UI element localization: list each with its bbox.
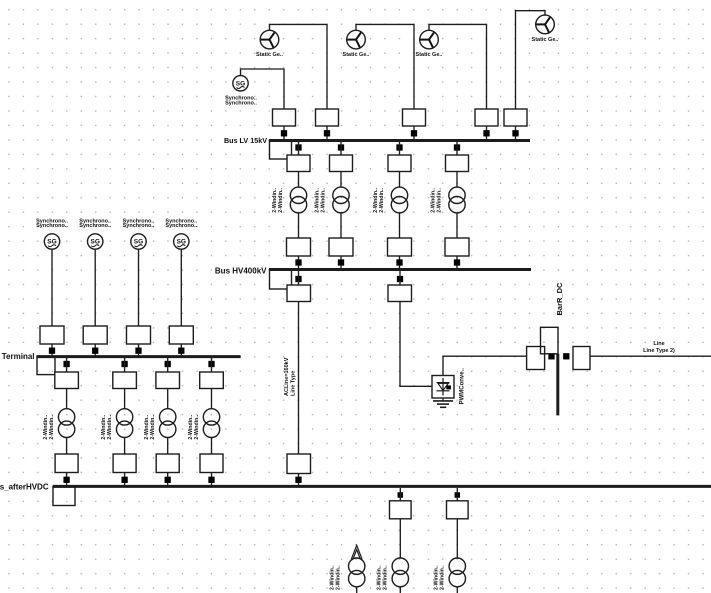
- wire switch SG3 to Terminal: [138, 344, 140, 356]
- label transformer T8 (rotated): [330, 565, 342, 590]
- transformer T9 (2-winding, bottom): [392, 558, 408, 587]
- breaker square above Bus HV branch T3: [396, 259, 402, 265]
- cubicle rectangle at Bus afterHVDC left end: [53, 487, 75, 506]
- svg-text:Static Ge..: Static Ge..: [256, 52, 283, 58]
- wire switch to transformer T4: [456, 172, 458, 188]
- svg-text:PWMConve..: PWMConve..: [459, 368, 465, 405]
- wire switch T10 to transformer: [456, 519, 458, 558]
- svg-text:2-Windin..: 2-Windin..: [278, 188, 284, 213]
- transformer T10 (2-winding, bottom): [449, 558, 465, 587]
- svg-text:Synchrono..: Synchrono..: [165, 223, 197, 229]
- breaker square SG3 above Terminal: [135, 348, 141, 354]
- wire below transformer T9: [399, 587, 401, 593]
- svg-text:s_afterHVDC: s_afterHVDC: [0, 482, 49, 491]
- wire switch A to Bus LV: [283, 126, 285, 140]
- AC line (long vertical line): [298, 302, 300, 455]
- wire Terminal to switch T5: [66, 358, 68, 372]
- svg-text:Synchrono..: Synchrono..: [225, 100, 257, 106]
- wire lower switch T3 to Bus HV: [399, 256, 401, 269]
- breaker square above Bus afterHVDC branch T7: [165, 477, 171, 483]
- wire switch C to Bus LV: [413, 126, 415, 140]
- switch box SG4: [169, 326, 193, 344]
- wire switch to transformer T5: [66, 389, 68, 409]
- label transformer T4 (rotated): [431, 188, 443, 213]
- svg-text:2-Windin..: 2-Windin..: [321, 188, 327, 213]
- wire Bus afterHVDC to switch T9: [399, 488, 401, 501]
- breaker square right of BarR_DC: [563, 353, 569, 359]
- svg-text:2-Windin..: 2-Windin..: [437, 188, 443, 213]
- breaker square below Terminal branch T7: [165, 361, 171, 367]
- wire switch D to Bus LV: [486, 126, 488, 140]
- bus Bus_afterHVDC: [53, 485, 711, 488]
- label transformer T7 (rotated): [144, 414, 156, 439]
- svg-text:Terminal: Terminal: [2, 352, 35, 361]
- synchronous machine SG3: [131, 234, 146, 249]
- wire lower switch T5 to Bus afterHVDC: [66, 473, 68, 486]
- line to the right (Line Type 2): [590, 355, 711, 357]
- bus Terminal: [37, 355, 241, 358]
- cubicle rectangle at Bus HV left end: [270, 270, 292, 290]
- PWM converter U1: [432, 376, 454, 399]
- transformer T1 (2-winding): [290, 187, 306, 213]
- wire transformer T3 to lower switch: [399, 213, 401, 238]
- synchronous machine SG0: [233, 76, 248, 91]
- wire switch to transformer T7: [167, 389, 169, 409]
- svg-text:Synchrono..: Synchrono..: [79, 223, 111, 229]
- wire Bus HV to PWM switch: [399, 271, 401, 285]
- wire lower switch T2 to Bus HV: [340, 256, 342, 269]
- wire Bus LV to switch T3: [399, 142, 401, 155]
- switch box AC line bottom: [287, 454, 311, 474]
- svg-text:2-Windin..: 2-Windin..: [439, 565, 445, 590]
- svg-text:Synchrono..: Synchrono..: [36, 223, 68, 229]
- breaker square above Bus HV branch T4: [454, 259, 460, 265]
- breaker square below Bus LV branch T3: [396, 144, 402, 150]
- switch box SG2: [83, 326, 107, 344]
- label Synchronous Machine SG1: [36, 218, 68, 229]
- wire SG1 to switch: [51, 249, 53, 326]
- breaker square below Bus HV (AC line): [295, 276, 301, 282]
- wire from static generator G1 to switch: [270, 24, 328, 109]
- bus BarR_DC (vertical): [556, 354, 559, 416]
- synchronous machine SG4: [174, 234, 189, 249]
- ground symbol below PWM converter: [433, 398, 453, 407]
- wire switch to transformer T8: [211, 389, 213, 409]
- switch box upper T7: [156, 372, 180, 389]
- svg-text:2-Windin..: 2-Windin..: [330, 565, 336, 590]
- transformer T8 (2-winding, bottom): [349, 558, 365, 587]
- wire transformer T1 to lower switch: [298, 213, 300, 238]
- wire Terminal to switch T7: [167, 358, 169, 372]
- static generator G3 (wind turbine): [420, 30, 439, 49]
- switch box upper T6: [113, 372, 137, 389]
- wire from static generator G2 to switch: [356, 24, 414, 109]
- switch box upper T5: [55, 372, 79, 389]
- breaker square SG4 above Terminal: [178, 348, 184, 354]
- wire transformer T8 to lower switch: [211, 438, 213, 455]
- label transformer T8 (rotated): [188, 414, 200, 439]
- bus Bus LV 15kV: [269, 139, 530, 142]
- label AC line (rotated): [284, 357, 296, 396]
- wire Bus HV to AC line switch: [298, 271, 300, 285]
- wire switch SG2 to Terminal: [94, 344, 96, 356]
- breaker square SG1 above Terminal: [49, 348, 55, 354]
- breaker square below Bus HV (PWM branch): [397, 276, 403, 282]
- transformer T4 (2-winding): [449, 187, 465, 213]
- wire switch to transformer T6: [124, 389, 126, 409]
- switch box lower T3: [388, 238, 412, 256]
- breaker square above Bus afterHVDC branch T5: [63, 477, 69, 483]
- switch box lower T7: [156, 454, 179, 473]
- svg-text:Line: Line: [653, 341, 664, 347]
- svg-text:BarR_DC: BarR_DC: [555, 282, 564, 316]
- svg-text:2-Windin..: 2-Windin..: [382, 565, 388, 590]
- switch box lower T8: [200, 454, 223, 473]
- svg-text:Bus LV 15kV: Bus LV 15kV: [224, 136, 267, 145]
- wire below transformer T8: [356, 587, 358, 593]
- switch box E above Bus LV: [504, 109, 527, 126]
- wire switch SG4 to Terminal: [180, 344, 182, 356]
- cubicle rectangle at Bus LV left end: [270, 141, 292, 160]
- synchronous machine SG2: [88, 234, 103, 249]
- label Synchronous Machine SG4: [165, 218, 197, 229]
- wire SG2 to switch: [94, 249, 96, 326]
- svg-text:2-Windin..: 2-Windin..: [336, 565, 342, 590]
- svg-text:2-Windin..: 2-Windin..: [379, 188, 385, 213]
- wire switch to transformer T3: [399, 172, 401, 188]
- breaker square below Bus afterHVDC branch T10: [455, 492, 461, 498]
- breaker square above Bus afterHVDC branch T6: [121, 477, 127, 483]
- static generator G2 (wind turbine): [347, 30, 366, 49]
- switch box C above Bus LV: [403, 109, 426, 126]
- cubicle rectangle at BarR_DC top: [541, 327, 559, 354]
- breaker square below Bus LV branch T2: [338, 144, 344, 150]
- breaker square D: [483, 130, 489, 136]
- switch box T10: [447, 501, 469, 519]
- label transformer T5 (rotated): [43, 414, 55, 439]
- label transformer T1 (rotated): [272, 188, 284, 213]
- svg-text:Synchrono..: Synchrono..: [123, 223, 155, 229]
- load arrow above transformer T8: [351, 545, 362, 559]
- wire switch T9 to transformer: [399, 519, 401, 558]
- transformer T5 (2-winding): [58, 409, 74, 438]
- label Synchronous Machine SG3: [123, 218, 155, 229]
- breaker square below Bus LV branch T1: [295, 144, 301, 150]
- wire SG3 to switch: [138, 249, 140, 326]
- switch box upper T4: [446, 155, 469, 172]
- cubicle rectangle at Terminal left end: [37, 357, 55, 375]
- switch box A above Bus LV: [273, 109, 296, 126]
- wire from synchronous machine SG0 to switch: [241, 69, 285, 109]
- svg-text:2-Windin..: 2-Windin..: [150, 414, 156, 439]
- switch box left of BarR_DC: [527, 347, 545, 370]
- transformer T7 (2-winding): [160, 409, 176, 438]
- wire lower switch T8 to Bus afterHVDC: [211, 473, 213, 486]
- wire switch SG1 to Terminal: [51, 344, 53, 356]
- label Synchronous Machine SG0: [225, 96, 257, 107]
- wire from static generator G4 to switch: [516, 11, 546, 109]
- svg-text:Line Type: Line Type: [290, 371, 296, 396]
- transformer T2 (2-winding): [333, 187, 349, 213]
- breaker square below Bus afterHVDC branch T9: [398, 492, 404, 498]
- wire transformer T7 to lower switch: [167, 438, 169, 455]
- breaker square left of BarR_DC: [548, 353, 554, 359]
- static generator G1 (wind turbine): [260, 30, 279, 49]
- wire switch E to Bus LV: [515, 126, 517, 140]
- svg-text:Static Ge..: Static Ge..: [532, 37, 559, 43]
- breaker square E: [512, 130, 518, 136]
- synchronous machine SG1: [44, 234, 59, 249]
- switch box AC line top: [287, 285, 311, 302]
- breaker square C: [411, 130, 417, 136]
- transformer T8 (2-winding): [203, 409, 219, 438]
- svg-text:Static Ge..: Static Ge..: [416, 52, 443, 58]
- label transformer T10 (rotated): [433, 565, 445, 590]
- wire switch to transformer T2: [340, 172, 342, 188]
- breaker square below Bus LV branch T4: [454, 144, 460, 150]
- breaker square above Bus HV branch T2: [338, 259, 344, 265]
- switch box D above Bus LV: [475, 109, 498, 126]
- wire transformer T4 to lower switch: [456, 213, 458, 238]
- switch box lower T2: [329, 238, 353, 256]
- svg-text:Static Ge..: Static Ge..: [343, 52, 370, 58]
- wire lower switch T7 to Bus afterHVDC: [167, 473, 169, 486]
- switch box upper T2: [330, 155, 353, 172]
- svg-text:2-Windin..: 2-Windin..: [194, 414, 200, 439]
- wire Terminal to switch T6: [124, 358, 126, 372]
- switch box upper T1: [287, 155, 310, 172]
- svg-text:2-Windin..: 2-Windin..: [49, 414, 55, 439]
- switch box upper T8: [200, 372, 224, 389]
- breaker square below Terminal branch T5: [63, 361, 69, 367]
- breaker square below Terminal branch T8: [208, 361, 214, 367]
- switch box lower T4: [445, 238, 469, 256]
- wire switch to transformer T1: [298, 172, 300, 188]
- switch box SG1: [40, 326, 64, 344]
- wire below transformer T10: [456, 587, 458, 593]
- wire lower switch T6 to Bus afterHVDC: [124, 473, 126, 486]
- switch box lower T1: [287, 238, 311, 256]
- breaker square B: [324, 130, 330, 136]
- label transformer T2 (rotated): [315, 188, 327, 213]
- switch box right of BarR_DC: [573, 347, 590, 370]
- wire Bus LV to switch T2: [340, 142, 342, 155]
- wire Bus LV to switch T4: [456, 142, 458, 155]
- label Synchronous Machine SG2: [79, 218, 111, 229]
- wire switch to PWM converter AC side: [400, 302, 432, 387]
- transformer T3 (2-winding): [391, 187, 407, 213]
- label transformer T6 (rotated): [101, 414, 113, 439]
- wire SG4 to switch: [180, 249, 182, 326]
- wire PWM converter DC side to BarR_DC: [443, 356, 527, 375]
- label transformer T9 (rotated): [376, 565, 388, 590]
- static generator G4 (wind turbine): [536, 15, 555, 34]
- switch box lower T5: [55, 454, 78, 473]
- svg-text:Line Type 2): Line Type 2): [643, 348, 675, 354]
- wire lower switch T4 to Bus HV: [456, 256, 458, 269]
- wire Terminal to switch T8: [211, 358, 213, 372]
- breaker square SG2 above Terminal: [92, 348, 98, 354]
- breaker square above Bus afterHVDC (AC line): [295, 477, 301, 483]
- wire AC line switch to Bus afterHVDC: [298, 474, 300, 486]
- breaker square above Bus afterHVDC branch T8: [208, 477, 214, 483]
- breaker square below Terminal branch T6: [121, 361, 127, 367]
- switch box SG3: [127, 326, 151, 344]
- wire transformer T5 to lower switch: [66, 438, 68, 455]
- breaker square A: [281, 130, 287, 136]
- svg-text:ACLine=160kV: ACLine=160kV: [284, 357, 290, 396]
- wire switch B to Bus LV: [326, 126, 328, 140]
- switch box upper T3: [388, 155, 411, 172]
- wire transformer T2 to lower switch: [340, 213, 342, 238]
- wire from static generator G3 to switch: [429, 24, 487, 109]
- transformer T6 (2-winding): [116, 409, 132, 438]
- label Line / Line Type 2): [643, 341, 675, 354]
- breaker square above Bus HV branch T1: [295, 259, 301, 265]
- wire lower switch T1 to Bus HV: [298, 256, 300, 269]
- switch box PWM branch: [388, 285, 412, 302]
- switch box lower T6: [113, 454, 136, 473]
- bus Bus HV400kV: [269, 268, 531, 271]
- wire Bus afterHVDC to switch T10: [456, 488, 458, 501]
- wire transformer T6 to lower switch: [124, 438, 126, 455]
- switch box T9: [390, 501, 412, 519]
- svg-text:Bus HV400kV: Bus HV400kV: [215, 267, 267, 276]
- svg-text:2-Windin..: 2-Windin..: [107, 414, 113, 439]
- label transformer T3 (rotated): [373, 188, 385, 213]
- wire Bus LV to switch T1: [298, 142, 300, 155]
- switch box B above Bus LV: [316, 109, 339, 126]
